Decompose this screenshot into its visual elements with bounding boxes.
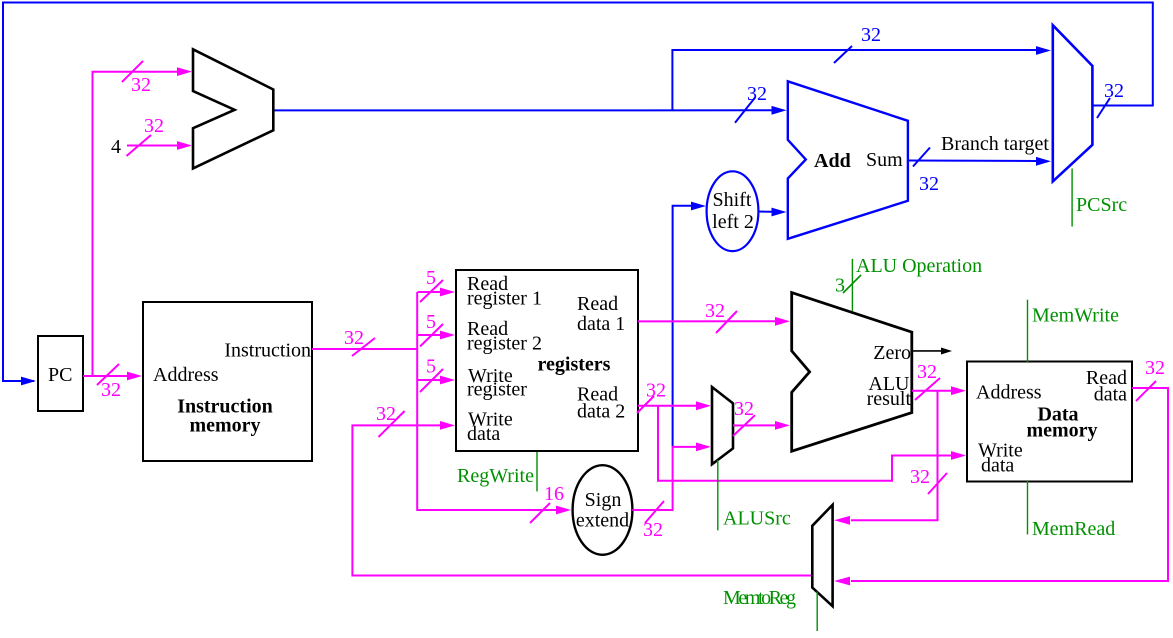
wire: MemtoReg control (816, 591, 818, 631)
wire: ALUSrc control (717, 460, 719, 530)
arrowhead into ALUSrc mux bottom input (696, 443, 711, 452)
slash on branch target wire (913, 148, 930, 167)
svg-text:ALUSrc: ALUSrc (723, 508, 791, 530)
wire: Instruction bus to register file / sign extend (312, 348, 417, 350)
slash on sign extend output (645, 501, 664, 523)
wire: Shift left 2 output to Add bottom input (758, 211, 772, 213)
wire: MemRead control (1027, 481, 1029, 534)
svg-text:5: 5 (426, 311, 436, 333)
svg-text:PC: PC (48, 364, 72, 386)
svg-text:16: 16 (544, 483, 564, 505)
svg-text:data: data (467, 423, 500, 445)
slash on PC+4 adder top input (122, 61, 143, 82)
slash on read data 2 (637, 396, 654, 413)
svg-text:32: 32 (734, 398, 754, 420)
main ALU (792, 293, 912, 452)
branch Add unit (blue ALU shape) (788, 81, 908, 239)
PC register box (38, 336, 83, 411)
wire: PCSrc control (1071, 169, 1073, 227)
svg-text:32: 32 (917, 361, 937, 383)
svg-text:32: 32 (747, 83, 767, 105)
svg-text:MemWrite: MemWrite (1032, 305, 1119, 327)
arrowhead into Read register 2 (440, 331, 455, 340)
slash on ALU operation (3-bit) (843, 275, 861, 293)
wire: PC output branch up to PC+4 adder input (93, 72, 179, 376)
arrowhead into Write data (440, 421, 455, 430)
wire: Read data 2 to ALUSrc mux (638, 405, 697, 407)
svg-text:Instruction: Instruction (224, 340, 311, 362)
arrowhead into Add bottom input (772, 208, 787, 217)
wire: sign extend output up to ALUSrc mux (632, 447, 697, 510)
svg-text:5: 5 (426, 356, 436, 378)
wire: MemtoReg mux output to Write data (bottom feedback) (352, 425, 812, 575)
svg-text:MemRead: MemRead (1032, 518, 1115, 540)
slash on read data 1 (716, 311, 737, 333)
svg-text:Sum: Sum (866, 149, 903, 171)
svg-text:32: 32 (919, 173, 939, 195)
svg-text:Address: Address (153, 364, 219, 386)
svg-text:32: 32 (376, 403, 396, 425)
wire: branch to Read register 2 (418, 334, 442, 336)
slash (5-bit) wr (420, 369, 443, 392)
svg-text:32: 32 (643, 519, 663, 541)
PC+4 adder (193, 49, 273, 168)
wire: branch to Read register 1 (418, 291, 442, 293)
arrowhead into PCSrc mux bottom input (1036, 157, 1051, 166)
svg-text:Zero: Zero (873, 342, 911, 364)
arrowhead into ALU top input (775, 317, 790, 326)
slash (5-bit) rr1 (420, 280, 443, 302)
svg-text:register 1: register 1 (467, 288, 542, 310)
slash on ALU result branch (928, 473, 947, 494)
wire: PCSrc mux output feedback (right, top, left edges into PC) (3, 3, 1153, 382)
svg-text:data: data (1094, 384, 1127, 406)
svg-text:Add: Add (814, 150, 851, 172)
arrowhead into ALU bottom input (775, 421, 790, 430)
PCSrc mux (1053, 25, 1093, 181)
arrowhead into Data memory Address (951, 386, 966, 395)
svg-text:memory: memory (189, 415, 260, 437)
arrowhead into PC+4 adder top input (177, 67, 192, 76)
arrowhead into ALUSrc mux top input (696, 401, 711, 410)
svg-text:32: 32 (861, 24, 881, 46)
wire: ALUSrc mux output to ALU (733, 424, 775, 426)
arrowhead into MemtoReg mux bottom input (834, 577, 850, 586)
svg-text:PCSrc: PCSrc (1076, 194, 1127, 216)
wire: PC output to instruction memory (83, 375, 128, 377)
svg-text:32: 32 (1145, 357, 1165, 379)
wire: branch to Write register (418, 379, 442, 381)
svg-text:32: 32 (131, 74, 151, 96)
svg-text:32: 32 (910, 466, 930, 488)
wire: ALU operation control (851, 259, 853, 311)
slash on Add top input wire (735, 98, 755, 123)
arrowhead into Shift left 2 (691, 202, 706, 211)
arrowhead into Add top input (772, 106, 787, 115)
slash on PC output wire (97, 364, 119, 385)
slash on write-back wire (379, 411, 405, 437)
shift left 2 ellipse (707, 171, 759, 251)
ALUSrc mux (712, 387, 733, 464)
slash on ALUSrc output (733, 415, 755, 436)
svg-text:RegWrite: RegWrite (457, 465, 534, 487)
slash on PC+4 to mux wire (834, 46, 852, 63)
wire: ALU result to Data memory Address (912, 390, 952, 392)
svg-text:4: 4 (111, 136, 121, 158)
svg-text:extend: extend (576, 510, 629, 532)
slash on instruction bus (352, 338, 375, 356)
svg-text:Sign: Sign (585, 489, 622, 511)
svg-text:register 2: register 2 (467, 333, 542, 355)
svg-text:registers: registers (538, 354, 611, 376)
slash on read data output (1136, 381, 1156, 401)
arrowhead Zero output (941, 348, 952, 355)
svg-text:result: result (867, 388, 912, 410)
svg-text:Address: Address (976, 382, 1042, 404)
arrowhead into MemtoReg mux top input (834, 516, 850, 525)
MemtoReg mux (mirrored) (812, 505, 832, 606)
arrowhead into Data memory Write data (951, 451, 966, 460)
slash on ALU result (915, 378, 940, 400)
wire: PC+4 branch up to PCSrc mux input 0 (672, 50, 1036, 110)
slash (16-bit) into sign extend (530, 503, 550, 523)
svg-text:data: data (981, 455, 1014, 477)
slash on constant-4 wire (127, 135, 152, 156)
sign extend ellipse (573, 465, 633, 555)
instruction memory box (143, 302, 312, 461)
svg-text:data 1: data 1 (577, 313, 625, 335)
data memory box (967, 362, 1132, 482)
wire: instruction bus vertical (417, 292, 557, 510)
wire: shift-left-2 vertical feed (blue) (673, 206, 691, 446)
svg-text:32: 32 (144, 115, 164, 137)
arrowhead into Sign extend (556, 506, 571, 515)
svg-text:32: 32 (646, 380, 666, 402)
svg-text:Read: Read (577, 293, 618, 315)
wire: Zero output (912, 350, 943, 352)
svg-text:data 2: data 2 (577, 401, 625, 423)
arrowhead into instruction memory Address (127, 372, 142, 381)
svg-text:left 2: left 2 (712, 211, 754, 233)
wire: constant 4 into PC+4 adder (127, 145, 178, 147)
svg-text:register: register (467, 379, 527, 401)
svg-text:32: 32 (1104, 80, 1124, 102)
svg-text:3: 3 (835, 275, 845, 297)
wire: ALU result branch down to MemtoReg mux input 0 (851, 391, 938, 521)
wire: Read data 2 branch to Data memory Write data (658, 406, 952, 481)
register file box (456, 270, 638, 451)
wire: MemWrite control (1027, 300, 1029, 362)
svg-text:32: 32 (101, 379, 121, 401)
wire: Sum output to PCSrc mux input 1 (branch target) (908, 160, 1036, 163)
arrowhead into Write register (440, 376, 455, 385)
svg-text:MemtoReg: MemtoReg (723, 587, 796, 609)
arrowhead into PCSrc mux top input (1036, 46, 1051, 55)
arrowhead into Read register 1 (440, 288, 455, 297)
svg-text:32: 32 (344, 327, 364, 349)
wire: Data memory Read data to MemtoReg mux input 1 (851, 388, 1168, 581)
wire: PCSrc mux output 32 label and slash (1097, 98, 1110, 118)
slash (5-bit) rr2 (420, 324, 443, 347)
svg-text:ALU Operation: ALU Operation (856, 255, 982, 277)
svg-text:5: 5 (426, 267, 436, 289)
wire: RegWrite control (536, 452, 538, 491)
arrowhead into PC+4 adder bottom input (177, 141, 192, 150)
arrowhead into PC (21, 377, 36, 386)
svg-text:32: 32 (705, 300, 725, 322)
wire: PC+4 adder output to Add input (273, 109, 772, 111)
svg-text:memory: memory (1026, 420, 1097, 442)
svg-text:Shift: Shift (713, 189, 752, 211)
svg-text:Branch target: Branch target (941, 133, 1049, 155)
wire: Read data 1 to ALU (638, 320, 775, 322)
